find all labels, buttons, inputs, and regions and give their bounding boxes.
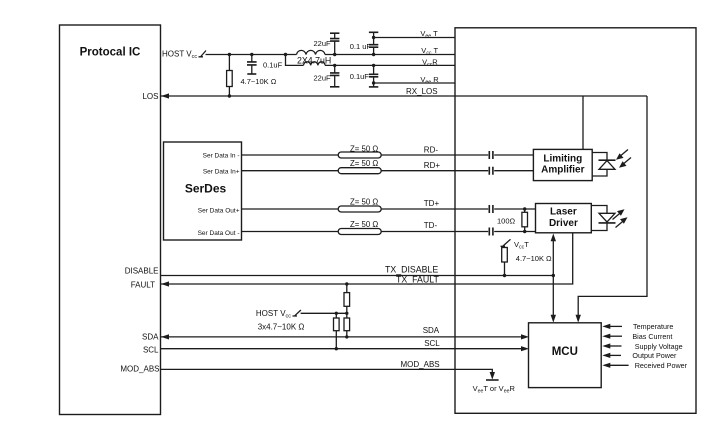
light arrows out of laser diode [613,209,628,227]
wire VeeT to module [374,37,455,39]
junction on HOST Vcc at branch [284,53,287,56]
transmission line Z=50 (RD-) [338,152,381,158]
wire RD- differential line [242,154,534,156]
svg-text:Ser Data Out -: Ser Data Out - [198,230,240,237]
svg-text:TX_FAULT: TX_FAULT [396,275,439,285]
svg-text:SDA: SDA [142,333,159,342]
wire RX_LOS down to Limiting Amplifier [582,96,584,149]
svg-text:Z= 50 Ω: Z= 50 Ω [350,220,378,229]
svg-text:SCL: SCL [143,346,159,355]
svg-text:Limiting: Limiting [543,154,582,165]
svg-text:100Ω: 100Ω [497,217,516,226]
svg-text:TX_DISABLE: TX_DISABLE [385,265,438,275]
arrow into MCU top (TX_DISABLE) [551,315,556,323]
svg-text:0.1 uF: 0.1 uF [350,42,372,51]
wire MOD_ABS [161,369,495,379]
coupling capacitor (RD+) [489,167,493,175]
capacitor C1 0.1uF (host) [247,53,257,74]
svg-text:4.7~10K Ω: 4.7~10K Ω [241,77,277,86]
MCU monitor input Received Power [602,361,687,370]
resistor R3 100ohm termination [522,207,528,233]
svg-text:Z= 50 Ω: Z= 50 Ω [350,144,378,153]
MCU monitor input Output Power [602,351,677,360]
svg-text:Supply Voltage: Supply Voltage [635,342,683,351]
ground bar VeeT or VeeR [486,379,499,381]
svg-text:LOS: LOS [142,92,158,101]
junction TX_DISABLE vertical [552,274,555,277]
svg-text:0.1uF: 0.1uF [350,72,370,81]
coupling capacitor (TD+) [489,205,493,213]
svg-text:MOD_ABS: MOD_ABS [120,365,159,374]
wire VccR rail to module [325,64,455,66]
svg-text:4.7~10K Ω: 4.7~10K Ω [516,254,552,263]
coupling capacitor (RD-) [489,151,493,159]
wire VeeR to module [374,82,455,84]
svg-text:Driver: Driver [549,218,578,229]
wire TX_DISABLE up to Laser Driver and down to MCU [552,240,554,317]
wire VccT rail to module [325,54,455,56]
power flag HOST Vcc (top) [199,51,207,57]
capacitor C3 22uF (VccR) [330,64,339,87]
svg-text:RX_LOS: RX_LOS [406,87,438,96]
svg-text:Amplifier: Amplifier [541,165,584,176]
wire SDA [161,334,529,339]
resistor R5 4.7~10K (fault pullup) [344,282,350,313]
svg-text:Z= 50 Ω: Z= 50 Ω [350,159,378,168]
resistor R6 (SCL pullup) [334,313,340,350]
svg-text:2X4.7uH: 2X4.7uH [297,56,331,66]
svg-text:MCU: MCU [552,346,578,358]
svg-text:FAULT: FAULT [131,280,155,289]
svg-text:TD+: TD+ [424,199,440,208]
svg-text:Ser Data In -: Ser Data In - [203,153,240,160]
light arrows into photodiode [616,150,631,168]
junction rail/R6 [335,312,338,315]
svg-text:MOD_ABS: MOD_ABS [401,360,440,369]
svg-text:DISABLE: DISABLE [125,267,159,276]
power flag HOST Vcc (rail) [293,310,301,316]
svg-text:0.1uF: 0.1uF [263,61,283,70]
svg-text:SerDes: SerDes [185,182,227,196]
junction TX_DISABLE/pullup [503,274,506,277]
wire TD- differential line [242,231,536,233]
capacitor C5 0.1uF (VccR) [369,64,378,87]
svg-text:Bias Current: Bias Current [632,332,672,341]
svg-text:Protocal IC: Protocal IC [80,47,141,59]
resistor R2 4.7~10K (LOS pullup) [227,53,233,98]
wire RX_LOS to MCU (right route) [578,96,647,317]
wire branch down to VccR [286,55,304,66]
svg-text:RD-: RD- [424,146,439,155]
svg-text:SDA: SDA [423,326,440,335]
transmission line Z=50 (RD+) [338,168,381,174]
IC U5 MCU [529,323,602,388]
MCU monitor input Temperature [602,322,673,331]
photodiode D1 [592,153,615,177]
svg-text:Laser: Laser [550,207,577,218]
svg-text:22uF: 22uF [314,74,332,83]
resistor R7 (SDA pullup) [344,313,350,338]
IC U1 Protocal IC box [60,25,161,415]
svg-text:SCL: SCL [424,339,440,348]
svg-text:Ser Data In+: Ser Data In+ [203,168,240,175]
svg-text:3x4.7~10K Ω: 3x4.7~10K Ω [258,322,305,331]
inductor L2 (lower 4.7uH) [304,62,326,66]
wire HOST Vcc pullup rail [301,312,347,314]
svg-text:RD+: RD+ [424,161,441,170]
IC U4 Laser Driver [536,204,592,233]
svg-text:Ser Data Out+: Ser Data Out+ [198,208,240,215]
wire RD+ differential line [242,170,534,172]
power flag VccT (pullup) [501,239,511,246]
transmission line Z=50 (TD-) [338,229,381,235]
wire LOS / RX_LOS [161,93,647,98]
IC U2 SerDes box [164,142,242,240]
svg-text:Z= 50 Ω: Z= 50 Ω [350,198,378,207]
wire HOST Vcc top rail [206,54,297,56]
transmission line Z=50 (TD+) [338,206,381,212]
svg-text:Temperature: Temperature [633,322,673,331]
wire TX_DISABLE [161,275,553,277]
arrow into Laser Driver bottom [551,234,556,242]
wire SCL [161,346,529,351]
svg-text:22uF: 22uF [314,39,332,48]
arrow into MCU top (RX_LOS) [576,315,581,323]
IC U3 Limiting Amplifier [533,149,592,180]
wire TD+ differential line [242,208,536,210]
laser diode D2 [591,206,615,231]
wire TX_FAULT [161,233,573,287]
capacitor C2 22uF (VccT) [330,33,339,56]
svg-text:TD-: TD- [424,221,438,230]
junction rail/R7 [345,312,348,315]
coupling capacitor (TD-) [489,228,493,236]
resistor R4 4.7~10K (disable pullup) [502,247,508,276]
svg-text:Output Power: Output Power [632,351,677,360]
capacitor C4 0.1uF (VccT) [369,32,378,56]
MCU monitor input Bias Current [602,332,672,341]
MCU monitor input Supply Voltage [602,342,682,351]
module box (transceiver) [455,28,696,414]
svg-text:Received Power: Received Power [635,361,688,370]
inductor L1 (upper 4.7uH) [297,50,326,54]
